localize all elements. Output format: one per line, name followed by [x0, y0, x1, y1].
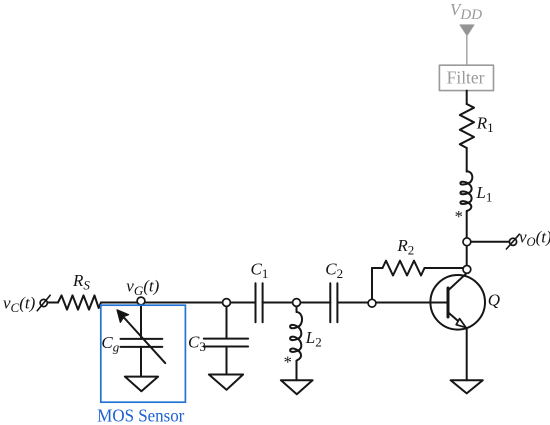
- svg-text:Filter: Filter: [447, 67, 485, 87]
- svg-text:vG(t): vG(t): [126, 277, 159, 299]
- svg-text:*: *: [284, 353, 292, 372]
- svg-text:Q: Q: [488, 290, 500, 309]
- svg-text:vC(t): vC(t): [3, 294, 36, 316]
- svg-text:*: *: [455, 207, 463, 226]
- svg-text:MOS Sensor: MOS Sensor: [97, 406, 184, 425]
